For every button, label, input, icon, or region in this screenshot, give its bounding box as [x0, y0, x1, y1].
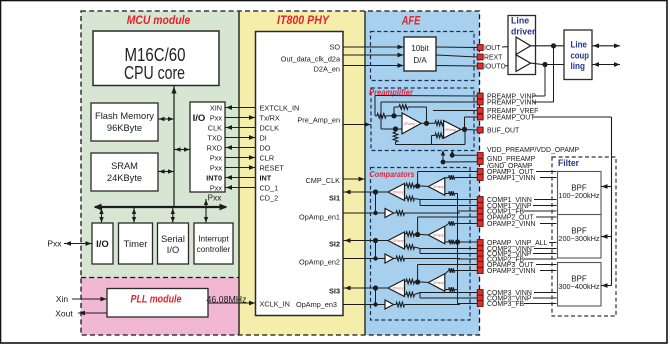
svg-text:46.08MHz: 46.08MHz [206, 295, 246, 305]
svg-text:D/A: D/A [413, 56, 427, 65]
svg-text:AFE: AFE [401, 16, 421, 28]
svg-text:I/O: I/O [193, 113, 206, 124]
svg-text:I/O: I/O [96, 239, 109, 250]
svg-text:OPamp: OPamp [403, 122, 415, 126]
svg-text:XCLK_IN: XCLK_IN [260, 300, 290, 309]
svg-text:CLR: CLR [260, 153, 275, 162]
svg-text:OPamp: OPamp [433, 281, 445, 285]
svg-text:OPAMP1_VINN: OPAMP1_VINN [487, 175, 536, 182]
svg-text:DCLK: DCLK [260, 123, 280, 132]
svg-text:Xout: Xout [55, 309, 73, 319]
svg-text:Pxx: Pxx [47, 239, 62, 249]
svg-text:ling: ling [571, 61, 586, 71]
svg-text:/GND_OPAMP: /GND_OPAMP [487, 163, 533, 170]
svg-text:Tx/RX: Tx/RX [260, 113, 280, 122]
svg-text:OPamp: OPamp [433, 234, 445, 238]
svg-text:Interrupt: Interrupt [198, 235, 229, 244]
svg-text:OPamp: OPamp [444, 128, 456, 132]
svg-text:INT: INT [260, 173, 272, 182]
svg-text:controller: controller [197, 245, 231, 254]
svg-text:XIN: XIN [210, 103, 222, 112]
svg-text:96KByte: 96KByte [107, 123, 142, 133]
svg-text:D2A_en: D2A_en [314, 65, 340, 74]
svg-text:CMP_CLK: CMP_CLK [306, 176, 341, 185]
svg-text:driver: driver [511, 27, 536, 37]
svg-text:OPamp: OPamp [392, 191, 404, 195]
svg-text:24KByte: 24KByte [107, 173, 142, 183]
svg-text:INT0: INT0 [206, 173, 222, 182]
svg-text:CLK: CLK [208, 123, 222, 132]
svg-text:SI3: SI3 [329, 287, 340, 296]
svg-text:IOUT: IOUT [484, 45, 501, 52]
svg-text:RESET: RESET [260, 163, 285, 172]
svg-text:OpAmp_en1: OpAmp_en1 [299, 213, 340, 222]
svg-text:Filter: Filter [558, 158, 579, 169]
svg-text:Out_data_clk_d2a: Out_data_clk_d2a [281, 55, 341, 64]
svg-text:OPamp: OPamp [392, 287, 404, 291]
svg-text:OPamp: OPamp [433, 185, 445, 189]
svg-text:Flash Memory: Flash Memory [95, 111, 154, 121]
svg-text:Comparators: Comparators [370, 169, 415, 179]
svg-text:SRAM: SRAM [111, 161, 138, 171]
svg-text:Pxx: Pxx [208, 194, 222, 203]
svg-text:OPamp: OPamp [392, 239, 404, 243]
svg-text:CD_2: CD_2 [260, 193, 279, 202]
svg-text:SO: SO [329, 43, 340, 52]
svg-text:GND_PREAMP: GND_PREAMP [487, 156, 536, 163]
svg-text:DI: DI [260, 133, 267, 142]
svg-text:SI1: SI1 [329, 194, 340, 203]
svg-text:OpAmp_en2: OpAmp_en2 [299, 258, 340, 267]
svg-text:100~200kHz: 100~200kHz [558, 191, 600, 200]
svg-text:EXTCLK_IN: EXTCLK_IN [260, 103, 300, 112]
svg-text:DO: DO [260, 143, 271, 152]
svg-text:300~400kHz: 300~400kHz [558, 282, 600, 291]
svg-text:PREAMP_OUT: PREAMP_OUT [487, 115, 535, 122]
svg-text:Pxx: Pxx [210, 163, 223, 172]
svg-text:Serial: Serial [161, 234, 185, 244]
svg-text:PREAMP_VINN: PREAMP_VINN [487, 100, 536, 107]
svg-text:OpAmp_en3: OpAmp_en3 [296, 300, 337, 309]
svg-text:Line: Line [511, 16, 529, 26]
svg-text:IOUTC: IOUTC [484, 64, 505, 71]
svg-text:REXT: REXT [484, 55, 503, 62]
svg-text:VDD_PREAMP/VDD_OPAMP: VDD_PREAMP/VDD_OPAMP [487, 147, 580, 154]
svg-text:10bit: 10bit [411, 44, 429, 53]
svg-text:Xin: Xin [56, 294, 69, 304]
svg-text:RXD: RXD [207, 143, 222, 152]
svg-text:TXD: TXD [207, 133, 222, 142]
svg-text:200~300kHz: 200~300kHz [558, 234, 600, 243]
svg-text:coup: coup [571, 51, 590, 61]
svg-text:OPAMP2_VINN: OPAMP2_VINN [487, 221, 536, 228]
svg-text:Pxx: Pxx [210, 153, 223, 162]
svg-text:IT800 PHY: IT800 PHY [277, 13, 330, 27]
svg-text:Pxx: Pxx [210, 183, 223, 192]
svg-text:I/O: I/O [167, 245, 179, 255]
svg-text:PLL module: PLL module [131, 294, 182, 306]
svg-text:COMP3_FB: COMP3_FB [487, 301, 525, 308]
svg-text:Pxx: Pxx [210, 113, 223, 122]
svg-text:CPU core: CPU core [124, 62, 185, 83]
svg-text:CD_1: CD_1 [260, 183, 279, 192]
svg-text:Line: Line [571, 40, 588, 50]
svg-text:BUF_OUT: BUF_OUT [487, 128, 520, 135]
svg-text:MCU module: MCU module [127, 13, 191, 27]
svg-text:SI2: SI2 [329, 240, 340, 249]
svg-text:Timer: Timer [124, 239, 148, 250]
svg-text:Pre_Amp_en: Pre_Amp_en [297, 116, 340, 125]
svg-text:OPAMP3_VINN: OPAMP3_VINN [487, 268, 536, 275]
